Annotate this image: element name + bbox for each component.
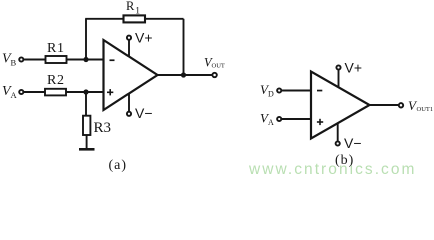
wire feedback top right segment	[145, 18, 184, 20]
wire op-amp output	[158, 74, 213, 76]
node VA input label (b)	[260, 111, 274, 128]
svg-text:R1: R1	[47, 41, 65, 56]
svg-text:A: A	[11, 90, 18, 100]
op-amp U1 inverting sign	[110, 59, 115, 61]
svg-text:V+: V+	[345, 60, 363, 76]
wire R1 to op-amp inverting input	[67, 59, 104, 61]
svg-text:(a): (a)	[109, 158, 128, 173]
node junction feedback/output	[181, 72, 186, 77]
node VA input label	[2, 84, 18, 100]
svg-text:B: B	[11, 58, 17, 68]
node junction at inverting input	[83, 57, 88, 62]
terminal VB	[19, 57, 23, 61]
svg-text:V−: V−	[344, 135, 362, 151]
wire feedback vertical left	[85, 19, 87, 60]
node VB input label	[2, 52, 17, 68]
wire R3 branch vertical	[85, 92, 87, 116]
resistor R1 (feedback)	[124, 0, 146, 22]
wire VD to op-amp (b)	[282, 90, 311, 92]
node VOUT label	[204, 56, 225, 70]
resistor R2	[45, 73, 66, 95]
op-amp U1 triangle	[104, 40, 158, 110]
terminal VA (b)	[277, 117, 281, 121]
op-amp U2 triangle	[311, 72, 370, 139]
V- pin (a)	[127, 94, 153, 121]
svg-text:V−: V−	[135, 105, 153, 121]
svg-text:R: R	[126, 0, 135, 13]
svg-text:D: D	[268, 90, 274, 99]
svg-text:(b): (b)	[335, 153, 354, 168]
terminal VOUT	[212, 73, 216, 77]
wire VA to R2	[24, 91, 45, 93]
op-amp U2 inverting sign	[317, 90, 322, 92]
wire feedback vertical right down to output	[183, 19, 185, 75]
svg-text:R3: R3	[94, 120, 112, 136]
terminal VA	[19, 90, 23, 94]
wire R3 to ground	[86, 135, 88, 149]
wire VA to op-amp (b)	[282, 118, 311, 120]
node junction at non-inverting input	[83, 89, 88, 94]
resistor R3	[83, 116, 111, 136]
node VD input label	[260, 82, 274, 99]
wire R2 to op-amp non-inverting input	[66, 91, 104, 93]
V+ pin (b)	[336, 60, 362, 88]
svg-text:1: 1	[135, 7, 140, 17]
V- pin (b)	[336, 123, 362, 151]
wire feedback top left segment	[85, 18, 123, 20]
terminal VD	[277, 88, 281, 92]
resistor R1	[46, 41, 67, 63]
wire VB to R1	[24, 59, 46, 61]
svg-text:OUT1: OUT1	[417, 106, 434, 113]
svg-text:R2: R2	[47, 73, 65, 88]
svg-text:OUT: OUT	[212, 63, 225, 70]
svg-text:www.cntronics.com: www.cntronics.com	[248, 161, 417, 178]
node VOUT1 label	[408, 98, 433, 113]
op-amp U2 non-inverting sign	[317, 119, 323, 125]
ground	[79, 148, 95, 151]
terminal VOUT1	[399, 103, 403, 107]
svg-text:V+: V+	[135, 30, 153, 46]
op-amp U1 non-inverting sign	[107, 89, 113, 95]
wire op-amp (b) output	[370, 104, 399, 106]
V+ pin (a)	[127, 30, 153, 57]
svg-text:A: A	[268, 118, 274, 127]
